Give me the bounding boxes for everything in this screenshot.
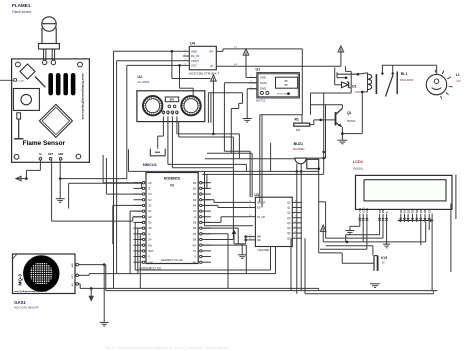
battery cell U2 — [150, 149, 165, 156]
flame sensor LED — [42, 17, 56, 31]
U2 board — [137, 91, 205, 122]
svg-text:RW: RW — [381, 208, 385, 213]
svg-text:D3: D3 — [411, 209, 415, 213]
svg-text:VDD: VDD — [361, 207, 365, 213]
power arrow DHT — [243, 49, 249, 55]
wire gas GND — [79, 264, 105, 266]
svg-text:L1: L1 — [456, 73, 460, 77]
svg-text:G: G — [148, 232, 150, 236]
wire D0 riser — [204, 171, 206, 182]
svg-text:VEE: VEE — [365, 208, 369, 214]
svg-text:www.TheEngineeringProjects.com: www.TheEngineeringProjects.com — [81, 73, 85, 120]
gas sensor GAS1 board — [13, 254, 76, 294]
svg-text:RS: RS — [378, 209, 382, 213]
svg-text:G: G — [194, 215, 196, 219]
wire bus vertical 2 — [325, 105, 327, 158]
U2 right transducer — [181, 96, 200, 115]
svg-text:ACS712ELCTR-20A-T: ACS712ELCTR-20A-T — [189, 71, 219, 75]
svg-text:www.TheEngineeringProjects.com: www.TheEngineeringProjects.com — [14, 290, 47, 293]
svg-text:U3: U3 — [254, 193, 259, 197]
svg-text:3V: 3V — [148, 238, 151, 242]
wire R1 to Q1 base — [310, 124, 314, 126]
U1 pin stubs — [246, 77, 257, 79]
ground VSS — [346, 230, 355, 232]
relay RL1 coil — [367, 73, 369, 92]
svg-text:G: G — [194, 255, 196, 259]
wire coil bottom — [362, 91, 367, 93]
wire node net183 — [68, 183, 70, 208]
svg-text:D6: D6 — [193, 226, 197, 230]
svg-text:V3: V3 — [170, 184, 174, 188]
board pin pads — [39, 158, 42, 161]
svg-text:HC-SR04: HC-SR04 — [137, 80, 149, 84]
wire h158 — [205, 158, 295, 160]
svg-text:DATA: DATA — [260, 81, 267, 85]
ground Q1 — [338, 139, 348, 141]
wire gas DET — [79, 274, 90, 276]
svg-text:MQ-3 GAS SENSOR: MQ-3 GAS SENSOR — [14, 306, 38, 310]
svg-text:5 watts: 5 watts — [18, 79, 26, 82]
svg-text:VCC: VCC — [191, 64, 197, 68]
wire U2 gnd to cell — [162, 116, 164, 136]
wire bottom bus y290 — [106, 290, 438, 292]
wire D7 down — [202, 233, 228, 235]
svg-text:VDD: VDD — [260, 76, 266, 80]
svg-text:A0: A0 — [148, 181, 152, 185]
svg-text:U1: U1 — [256, 68, 261, 72]
svg-text:LM016L: LM016L — [353, 166, 364, 170]
svg-text:D2: D2 — [406, 209, 410, 213]
svg-text:G: G — [148, 255, 150, 259]
gas sensor mesh circle — [24, 256, 59, 291]
svg-text:D7: D7 — [193, 232, 197, 236]
svg-text:S0: S0 — [148, 221, 152, 225]
wire D6 down — [202, 227, 238, 229]
wire gnd pair second — [105, 265, 107, 291]
board resistor diagonal — [35, 77, 45, 88]
svg-text:D5: D5 — [419, 209, 423, 213]
svg-text:LCD1: LCD1 — [353, 159, 364, 164]
svg-text:G: G — [148, 186, 150, 190]
relay contact — [382, 64, 437, 66]
svg-text:NODEMCU V3: NODEMCU V3 — [139, 267, 160, 271]
wire DHT gnd — [247, 88, 257, 90]
svg-text:DHT11: DHT11 — [256, 99, 266, 103]
svg-text:DET: DET — [72, 273, 74, 278]
wire U2 vcc — [176, 116, 178, 133]
svg-text:S3: S3 — [148, 198, 152, 202]
wire rail B — [116, 61, 118, 274]
svg-text:RST: RST — [148, 249, 154, 253]
wire h174 end — [300, 171, 302, 174]
wire flame 5v to power arrow — [39, 160, 41, 170]
LCD screen — [364, 180, 446, 201]
wire buzzer bottom — [129, 170, 320, 172]
svg-text:5K: 5K — [382, 262, 385, 265]
board label 9 watts — [14, 79, 17, 82]
wire E to ground — [386, 222, 388, 244]
diode D1 — [334, 67, 336, 84]
svg-text:FLAME1: FLAME1 — [12, 3, 31, 8]
wire D4 to U3 DS — [202, 204, 218, 206]
wire h174 — [202, 173, 324, 175]
board capacitor bars — [48, 73, 53, 95]
svg-text:D1: D1 — [352, 84, 356, 88]
NodeMCU left pins — [134, 182, 143, 184]
svg-text:ST_CP: ST_CP — [257, 216, 265, 219]
wire D5 drop — [420, 222, 422, 245]
wire h245 — [326, 245, 373, 247]
svg-text:MQ-3: MQ-3 — [18, 274, 23, 286]
svg-text:D5: D5 — [193, 221, 197, 225]
wire RS — [379, 222, 381, 235]
svg-text:D1: D1 — [403, 209, 407, 213]
pot KV1 — [373, 256, 375, 271]
wire VSS to ground — [359, 222, 361, 226]
svg-text:VU: VU — [148, 192, 152, 196]
ground flame — [56, 198, 65, 200]
svg-text:FIL_IN: FIL_IN — [191, 54, 199, 58]
svg-text:Vcc: Vcc — [177, 112, 179, 115]
wire VDD — [362, 222, 364, 242]
wire D3 to U3 SH_CP — [202, 199, 214, 201]
wire U4 IP- — [216, 65, 341, 67]
U3 MR OE wiring — [232, 230, 237, 234]
U2 small pads — [168, 105, 171, 108]
svg-text:D2: D2 — [193, 192, 197, 196]
svg-text:SH_CP: SH_CP — [257, 202, 266, 205]
svg-text:3V: 3V — [193, 209, 196, 213]
svg-text:D0: D0 — [193, 181, 197, 185]
svg-text:BUZZER: BUZZER — [293, 147, 304, 151]
svg-text:U2: U2 — [137, 75, 142, 79]
svg-text:D7: D7 — [427, 209, 431, 213]
buzzer terminals — [296, 164, 298, 172]
wire lcd big verticals — [431, 214, 433, 291]
svg-text:IP+: IP+ — [210, 50, 214, 54]
svg-text:74HC595: 74HC595 — [257, 248, 269, 252]
wire Q6 down — [290, 238, 292, 290]
wire h92 staircase — [208, 92, 242, 94]
svg-text:NODEMCU: NODEMCU — [164, 177, 181, 181]
NodeMCU box — [146, 173, 198, 264]
wire rail junction dots — [171, 50, 174, 53]
wire bottom bus y295 — [305, 293, 433, 295]
svg-text:S2: S2 — [148, 204, 152, 208]
svg-text:D4: D4 — [415, 209, 419, 213]
svg-text:GND: GND — [72, 263, 74, 268]
svg-text:GND: GND — [191, 49, 197, 53]
wire gas A0 — [79, 283, 81, 285]
svg-text:KV1: KV1 — [381, 256, 387, 260]
svg-text:SK: SK — [148, 226, 152, 230]
wire D7 drop — [428, 222, 430, 230]
svg-text:BUZ1: BUZ1 — [294, 142, 303, 146]
svg-text:RTE24005F: RTE24005F — [400, 79, 414, 82]
wire v270 — [270, 143, 272, 172]
wire U4 IP+ — [216, 50, 223, 52]
board electrolytic cap — [17, 113, 21, 119]
U3 right pins Q0-Q7 — [292, 201, 302, 203]
wire Q1 emitter to D1 — [342, 133, 362, 135]
board mounting holes — [16, 62, 21, 67]
wire corner137 — [178, 122, 180, 137]
U2 left transducer — [143, 96, 162, 115]
svg-text:SC: SC — [148, 215, 152, 219]
wire rail C — [126, 65, 128, 178]
wire Q7 down — [304, 238, 306, 294]
wire VEE — [366, 222, 368, 249]
wire bus vertical — [323, 93, 325, 174]
svg-text:NMCU1: NMCU1 — [143, 162, 158, 167]
wire right tall — [455, 175, 457, 220]
svg-text:Fig 3. Proposed schematic diag: Fig 3. Proposed schematic diagram of the… — [105, 345, 230, 350]
wire riser128 — [128, 149, 130, 171]
U4 left pin stubs — [183, 50, 189, 52]
svg-text:DET: DET — [48, 154, 53, 156]
LCD outer box — [356, 175, 453, 209]
svg-text:OE: OE — [257, 239, 261, 242]
svg-text:S1: S1 — [148, 209, 152, 213]
wire KV1 feed — [342, 262, 373, 264]
svg-text:NodeMCU V3 Lolin: NodeMCU V3 Lolin — [161, 258, 184, 262]
svg-text:D8: D8 — [193, 238, 197, 242]
svg-text:R1: R1 — [295, 118, 299, 122]
transistor Q1 — [335, 112, 337, 125]
NodeMCU right pins — [202, 182, 211, 184]
ground KV area — [370, 283, 380, 285]
wire flame DET — [51, 160, 53, 221]
svg-text:12V: 12V — [456, 80, 461, 83]
wire buses left of nodemcu — [102, 155, 104, 183]
svg-text:Flame sensor: Flame sensor — [12, 10, 32, 14]
board big diamond — [39, 104, 72, 137]
wire U2 echo — [167, 116, 169, 164]
wire flame GND — [59, 160, 61, 179]
svg-text:Trig: Trig — [172, 112, 174, 115]
svg-text:VIN: VIN — [148, 260, 152, 264]
wire D0 bus down + long h225 — [204, 183, 206, 226]
svg-text:E: E — [385, 211, 389, 213]
lamp L1 — [436, 65, 438, 74]
svg-text:Flame Sensor: Flame Sensor — [23, 140, 66, 147]
ground gas — [100, 321, 109, 323]
svg-text:VSS: VSS — [358, 208, 362, 214]
svg-text:Q1: Q1 — [347, 111, 352, 115]
wire h153 — [207, 152, 252, 154]
U4 ACS712 box — [189, 46, 216, 70]
U1 DHT11 box — [257, 73, 300, 98]
svg-text:DS: DS — [257, 207, 261, 210]
svg-text:BC547: BC547 — [348, 119, 356, 123]
svg-text:D3: D3 — [193, 198, 197, 202]
svg-text:Gnd: Gnd — [163, 111, 165, 115]
lamp rays — [442, 71, 444, 74]
LCD data bus line — [398, 220, 434, 222]
U2 pin pads — [162, 111, 165, 114]
svg-text:VIOUT: VIOUT — [191, 59, 199, 63]
wire RW — [382, 222, 384, 238]
svg-text:GND: GND — [58, 154, 63, 156]
svg-text:TX: TX — [193, 249, 197, 253]
power arrow U4 area — [211, 75, 217, 81]
wire U2 trig — [171, 116, 173, 167]
svg-text:3V: 3V — [193, 260, 196, 264]
wire R1 left lead — [301, 115, 303, 123]
wire D8 right — [202, 239, 233, 241]
relay core — [375, 74, 377, 94]
relay RL1 coil feed — [345, 66, 347, 71]
wire DHT data — [224, 82, 257, 84]
input flag arrow — [90, 288, 92, 299]
wire D5 to U3 ST_CP — [202, 221, 221, 223]
svg-text:GND: GND — [260, 87, 266, 91]
svg-text:853: 853 — [170, 98, 175, 102]
wire buzzer drops — [296, 171, 298, 293]
svg-text:GAS1: GAS1 — [14, 300, 26, 305]
svg-text:D4: D4 — [193, 204, 197, 208]
wire rail A — [113, 51, 115, 288]
svg-text:10k: 10k — [296, 128, 301, 132]
wire h252 — [319, 252, 343, 254]
wire RX down — [202, 244, 246, 246]
svg-text:D1: D1 — [193, 186, 197, 190]
power arrow relay — [338, 46, 344, 52]
svg-text:RX: RX — [193, 243, 197, 247]
U2 crystal — [165, 97, 178, 102]
ground U3 — [238, 254, 247, 256]
wire net270 — [135, 269, 270, 271]
svg-text:EN: EN — [148, 243, 152, 247]
flame sensor board — [12, 59, 90, 162]
svg-text:D6: D6 — [423, 209, 427, 213]
ground DHT — [243, 118, 252, 120]
U1 display — [276, 77, 298, 88]
wire D1 riser — [206, 174, 208, 188]
svg-text:RL1: RL1 — [401, 72, 408, 76]
svg-text:IP-: IP- — [210, 64, 213, 68]
wire D6 drop — [425, 222, 427, 242]
svg-text:88: 88 — [284, 83, 288, 87]
board potentiometer — [13, 89, 39, 111]
svg-text:D0: D0 — [399, 209, 403, 213]
board IR diode diamond — [20, 64, 35, 79]
wire right tall lower — [450, 204, 452, 273]
